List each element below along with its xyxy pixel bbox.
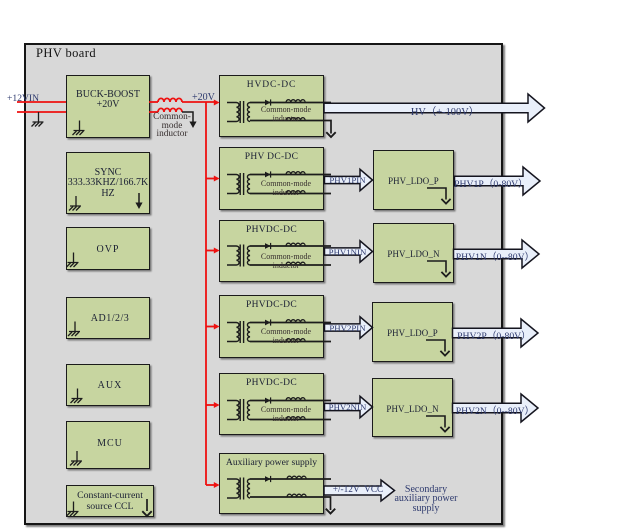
- block OVP: [66, 227, 150, 270]
- block AD1/2/3: [66, 297, 150, 339]
- ground SYNC: [69, 196, 81, 211]
- wire buck output bottom: [149, 111, 158, 113]
- wire M4 bottom: [250, 341, 331, 343]
- transformer T3: [227, 245, 250, 267]
- ground buck-boost: [73, 121, 85, 136]
- transformer T5: [227, 399, 250, 421]
- label common-mode inductor M1: [251, 105, 321, 123]
- ground CCL: [67, 502, 79, 517]
- wire red stub M2: [206, 178, 215, 180]
- label PHV2PIN: [328, 323, 368, 333]
- wire +12VIN bottom: [17, 111, 66, 113]
- arrow PHV2N out: [453, 394, 539, 422]
- ground OVP: [67, 253, 79, 268]
- label PHV1PIN: [328, 175, 368, 185]
- inductor M3 bottom: [286, 262, 305, 265]
- red arrow into M6: [214, 482, 220, 488]
- PHV board: [24, 43, 503, 525]
- block PHV_LDO_P 1: [373, 150, 454, 210]
- label PHV2N out: [450, 403, 540, 417]
- label PHV1N out: [450, 249, 540, 263]
- label common-mode inductor M5: [251, 405, 321, 423]
- diode D2: [265, 171, 271, 177]
- diode D3: [265, 243, 271, 249]
- label PHV2P out: [449, 328, 539, 342]
- return L PHV_LDO_P 1: [427, 188, 451, 204]
- block PHVDC-DC 3: [219, 295, 324, 358]
- label common-mode inductor M3: [251, 252, 321, 270]
- diode D1: [265, 99, 271, 105]
- label PHV1NIN: [328, 247, 368, 257]
- label PHV board: [36, 46, 96, 61]
- arrow PHV1PIN: [325, 169, 373, 190]
- block PHV_LDO_P 2: [372, 302, 453, 362]
- inductor M6 bottom: [287, 494, 306, 497]
- inductor M5 top: [286, 398, 305, 401]
- red arrow into M2: [214, 176, 220, 182]
- red arrow into HVDC-DC: [214, 100, 220, 106]
- block SYNC: [66, 152, 150, 214]
- wire M2 bottom: [250, 193, 331, 195]
- red arrow into M3: [214, 248, 220, 254]
- wire M6 bottom: [250, 497, 331, 510]
- arrow down SYNC: [138, 193, 140, 203]
- inductor M5 bottom: [286, 417, 305, 420]
- arrow PHV1P out: [455, 167, 541, 195]
- wire M5 top: [250, 400, 331, 402]
- wire M5 bottom: [250, 419, 331, 421]
- label common-mode inductor M2: [251, 179, 321, 197]
- wire M3 bottom: [250, 264, 331, 266]
- label +20V: [192, 92, 215, 103]
- block MCU: [66, 421, 150, 469]
- transformer T1: [227, 101, 250, 123]
- v head M1 ground: [326, 132, 335, 137]
- red arrow into M4: [214, 324, 220, 330]
- arrow PHV2P out: [453, 319, 539, 347]
- arrow down CCL: [146, 499, 148, 511]
- arrow PHV1NIN: [325, 241, 373, 262]
- inductor M1 top: [286, 100, 305, 103]
- inductor common-mode bottom red: [158, 108, 182, 112]
- v head M6 ground: [326, 509, 335, 514]
- block AUX: [66, 364, 150, 406]
- wire +20V rail: [205, 102, 207, 485]
- transformer T4: [227, 321, 250, 343]
- label PHV1P out: [446, 176, 536, 190]
- label +12VIN: [7, 93, 39, 104]
- red arrow into M5: [214, 402, 220, 408]
- wire M1 top: [250, 102, 331, 104]
- block PHV_LDO_N 2: [372, 378, 453, 437]
- wire +12VIN top: [17, 101, 66, 103]
- inductor M6 top: [287, 476, 306, 479]
- wire red stub M3: [206, 250, 215, 252]
- transformer T6: [227, 478, 250, 500]
- inductor M1 bottom: [286, 118, 305, 121]
- wire M1 bottom: [250, 121, 331, 134]
- arrow +/-12V VCC: [324, 480, 395, 501]
- block BUCK-BOOST: [66, 75, 150, 138]
- ground MCU: [70, 451, 82, 466]
- block PHVDC-DC 4: [219, 373, 324, 435]
- inductor M4 top: [286, 320, 305, 323]
- inductor M4 bottom: [286, 339, 305, 342]
- transformer T2: [227, 173, 250, 195]
- arrow PHV2PIN: [325, 317, 373, 338]
- wire M6 top: [250, 478, 331, 480]
- wire buck output top: [149, 101, 158, 103]
- arrow PHV1N out: [454, 240, 540, 268]
- inductor M2 bottom: [286, 191, 305, 194]
- inductor M3 top: [286, 243, 305, 246]
- wire M3 top: [250, 245, 331, 247]
- solid down arrow at common-mode: [189, 122, 196, 129]
- diode D6: [265, 476, 271, 482]
- arrow PHV2NIN: [325, 396, 373, 417]
- ground AUX: [71, 389, 83, 404]
- block Constant-current source CCL: [66, 485, 154, 517]
- block PHV_LDO_N 1: [373, 223, 454, 283]
- diode D5: [265, 397, 271, 403]
- wire +20V to HVDC-DC: [182, 101, 215, 103]
- block PHV DC-DC 1: [219, 147, 324, 210]
- wire red stub M6: [206, 484, 215, 486]
- arrow HV output: [324, 94, 545, 122]
- label common-mode inductor (external): [146, 113, 198, 139]
- diode D4: [265, 319, 271, 325]
- ground input: [32, 112, 44, 127]
- wire black elbow to arrow: [182, 112, 193, 122]
- wire M2 top: [250, 174, 331, 176]
- ground AD1/2/3: [68, 322, 80, 337]
- return L PHV_LDO_N 1: [427, 261, 451, 277]
- return L PHV_LDO_N 2: [426, 416, 450, 432]
- label secondary auxiliary power supply: [381, 485, 471, 514]
- block PHVDC-DC 2: [219, 220, 324, 282]
- block HVDC-DC: [219, 75, 324, 137]
- wire red stub M4: [206, 326, 215, 328]
- label common-mode inductor M4: [251, 327, 321, 345]
- inductor common-mode top red: [158, 98, 182, 102]
- wire red stub M5: [206, 404, 215, 406]
- label HV output: [400, 103, 490, 118]
- label +/-12V VCC: [327, 485, 389, 495]
- label PHV2NIN: [328, 402, 368, 412]
- wire M4 top: [250, 322, 331, 324]
- block Auxiliary power supply: [219, 453, 324, 514]
- return L PHV_LDO_P 2: [426, 340, 450, 356]
- inductor M2 top: [286, 172, 305, 175]
